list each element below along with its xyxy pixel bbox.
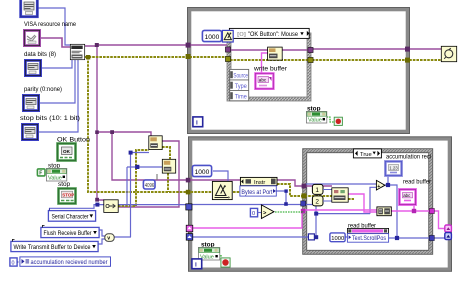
svg-text:abc: abc	[259, 77, 267, 82]
svg-text:"OK Button": Mouse: "OK Button": Mouse	[248, 32, 299, 38]
tunnel: olive event right	[308, 57, 313, 62]
tunnel: olive event left	[225, 56, 230, 61]
wire: pink string wires bottom loop	[192, 53, 445, 229]
property node: stop Value (bottom loop)	[198, 247, 219, 260]
function: wait ms (top loop)	[222, 30, 233, 42]
iteration terminal i (bottom loop)	[192, 259, 202, 269]
middle cluster: VI A (VISA flush)	[149, 136, 162, 150]
middle cluster: VI B (VISA clear)	[162, 159, 175, 173]
constant: Serial Character ring	[48, 208, 95, 221]
svg-text:2: 2	[315, 199, 319, 206]
case selector label: True	[353, 149, 381, 158]
indicator: read buffer string terminal	[399, 189, 415, 204]
svg-text:stop: stop	[58, 181, 71, 188]
constant: 2	[312, 196, 323, 206]
wire: baud rate blue	[38, 8, 70, 45]
svg-text:Write Transmit Buffer to Devic: Write Transmit Buffer to Device	[14, 245, 92, 251]
tunnel: wire 0 to comparator	[258, 212, 261, 214]
constant: 1	[312, 184, 323, 194]
VI: VISA Close	[441, 46, 456, 61]
wire: serial character enum to middle	[126, 167, 128, 205]
svg-text:Text.ScrollPos: Text.ScrollPos	[352, 236, 386, 242]
event selector label	[229, 28, 310, 38]
svg-text:Serial Character: Serial Character	[52, 214, 89, 220]
case structure frame	[303, 149, 433, 255]
svg-text:Type: Type	[235, 84, 248, 90]
control: VISA resource name terminal	[24, 30, 39, 45]
wire: flush mask combine to middle	[99, 230, 132, 244]
local variable: write buffer (pink)	[255, 73, 273, 88]
function: add (accumulate)	[376, 180, 385, 190]
tunnel: blue on case left border	[301, 201, 306, 206]
svg-text:[0]: [0]	[237, 32, 247, 38]
svg-text:True: True	[360, 152, 372, 158]
VI: VISA Configure Serial Port	[70, 44, 84, 59]
wire: shift register blue to tunnel box	[192, 236, 316, 238]
svg-text:1000: 1000	[195, 169, 210, 176]
control: stop bits terminal	[22, 124, 37, 139]
shift register left blue	[186, 234, 193, 241]
svg-text:write buffer: write buffer	[253, 66, 287, 72]
svg-text:Source: Source	[233, 74, 248, 80]
svg-text:1000: 1000	[331, 236, 344, 242]
shift register right blue	[445, 233, 452, 240]
constant: 1000 (bottom loop)	[192, 165, 211, 176]
wires: 1,2 into VISA read	[323, 190, 332, 202]
wire: error olive vertical branch	[88, 57, 354, 206]
wire: data bits blue	[41, 60, 72, 68]
shift register right pink	[445, 225, 452, 232]
junction: pink dots	[301, 209, 416, 214]
junction: blue dots	[95, 151, 399, 240]
svg-text:accumulation reci: accumulation reci	[386, 155, 431, 161]
VI: VISA Write	[268, 47, 283, 60]
wire: 1000 to text.scrollpos	[345, 236, 347, 238]
svg-text:read buffer: read buffer	[403, 180, 431, 186]
constant: 1000 (scrollpos)	[330, 233, 345, 242]
wire: blue crossing into loop2 at 207	[49, 205, 186, 209]
svg-text:Instr: Instr	[254, 180, 265, 186]
constant: 1000 (top loop)	[202, 30, 221, 41]
wire: error cluster olive top run	[85, 57, 441, 60]
wire: green boolean	[221, 117, 334, 262]
wire: 4096 to VI	[156, 174, 158, 180]
svg-text:i: i	[196, 120, 198, 127]
constant: Write Transmit Buffer to Device ring	[11, 239, 98, 251]
control: stop button terminal	[59, 189, 76, 204]
tunnel: purple event left	[225, 47, 230, 52]
svg-text:OK: OK	[63, 149, 71, 154]
svg-text:0: 0	[12, 260, 15, 266]
svg-text:accumulation recieved number: accumulation recieved number	[31, 260, 108, 266]
tunnel: purple event right	[308, 47, 313, 52]
tunnel: blue small box	[308, 234, 314, 240]
wire: stop bits blue	[38, 60, 78, 132]
constant: 0 (bottom loop)	[250, 208, 257, 217]
iteration terminal i (top loop)	[193, 117, 203, 127]
middle cluster: VI C (VISA open/clear)	[104, 200, 118, 213]
constant: Flush Receive Buffer ring	[41, 225, 99, 237]
svg-text:Time: Time	[235, 95, 248, 101]
function: greater than 0?	[261, 205, 274, 219]
conditional terminal (bottom loop)	[221, 258, 230, 267]
control: data bits terminal	[25, 60, 40, 75]
property node: Instr / Bytes at Port	[240, 177, 277, 196]
while loop 2 border (bottom)	[189, 137, 452, 271]
property node: stop Value (left)	[46, 168, 66, 181]
svg-text:i: i	[195, 262, 197, 269]
conditional terminal (top loop)	[334, 117, 342, 125]
tunnel: pink on case right border	[429, 208, 434, 213]
function: flush mask combiner	[105, 234, 114, 242]
indicator: accumulation received number terminal	[385, 161, 401, 175]
svg-text:1: 1	[315, 187, 319, 194]
svg-text:4096: 4096	[145, 183, 154, 189]
svg-text:data bits (8): data bits (8)	[24, 51, 56, 58]
event data node: Source/Type/Time	[230, 69, 249, 100]
control: parity terminal	[23, 95, 38, 110]
wire: blue middle horizontal into VI2	[127, 153, 162, 238]
VI: VISA Read	[332, 188, 348, 202]
constant: boolean F	[37, 169, 45, 177]
wire: VISA purple main top run	[40, 38, 441, 50]
svg-text:STOP: STOP	[62, 192, 74, 197]
control: baud rate terminal	[21, 0, 38, 17]
svg-text:+: +	[228, 195, 231, 200]
wire: parity blue	[39, 60, 75, 103]
junction: olive dots	[86, 54, 410, 198]
constant: 4096	[143, 180, 155, 189]
shift register left pink	[186, 225, 193, 232]
svg-text:0: 0	[252, 211, 255, 217]
svg-text:Flush Receive Buffer: Flush Receive Buffer	[44, 231, 92, 237]
event structure frame	[227, 33, 311, 101]
svg-text:1.23: 1.23	[389, 166, 398, 171]
control: OK Button terminal	[58, 144, 76, 161]
function: wait ms (bottom loop)	[212, 181, 232, 199]
local variable: accumulation recieved number	[10, 257, 111, 267]
wire: VISA purple vertical branch to middle	[97, 45, 332, 207]
svg-text:+: +	[377, 184, 380, 190]
svg-text:stop bits (10: 1 bit): stop bits (10: 1 bit)	[20, 115, 80, 122]
tunnel: blue on case right border	[429, 235, 434, 240]
svg-text:v: v	[107, 236, 110, 242]
svg-text:Value: Value	[308, 118, 322, 124]
property node: read buffer Text.ScrollPos	[347, 228, 388, 242]
svg-text:1000: 1000	[205, 34, 220, 41]
svg-text:VISA resource name: VISA resource name	[24, 21, 76, 28]
wire: add output to indicator and scrollpos	[192, 176, 445, 238]
svg-text:Bytes at Port: Bytes at Port	[241, 190, 272, 196]
wire: 1000 to wait bottom loop	[213, 171, 228, 181]
svg-text:abc: abc	[403, 193, 411, 198]
svg-text:parity (0:none): parity (0:none)	[24, 86, 62, 93]
property node: stop Value (top loop)	[306, 111, 326, 123]
tunnel: blue on loop2 left border	[186, 204, 192, 210]
svg-text:F: F	[39, 171, 42, 177]
function: concatenate strings	[377, 207, 391, 216]
while loop 1 border (top)	[188, 8, 410, 134]
junction: purple dots	[95, 43, 410, 202]
